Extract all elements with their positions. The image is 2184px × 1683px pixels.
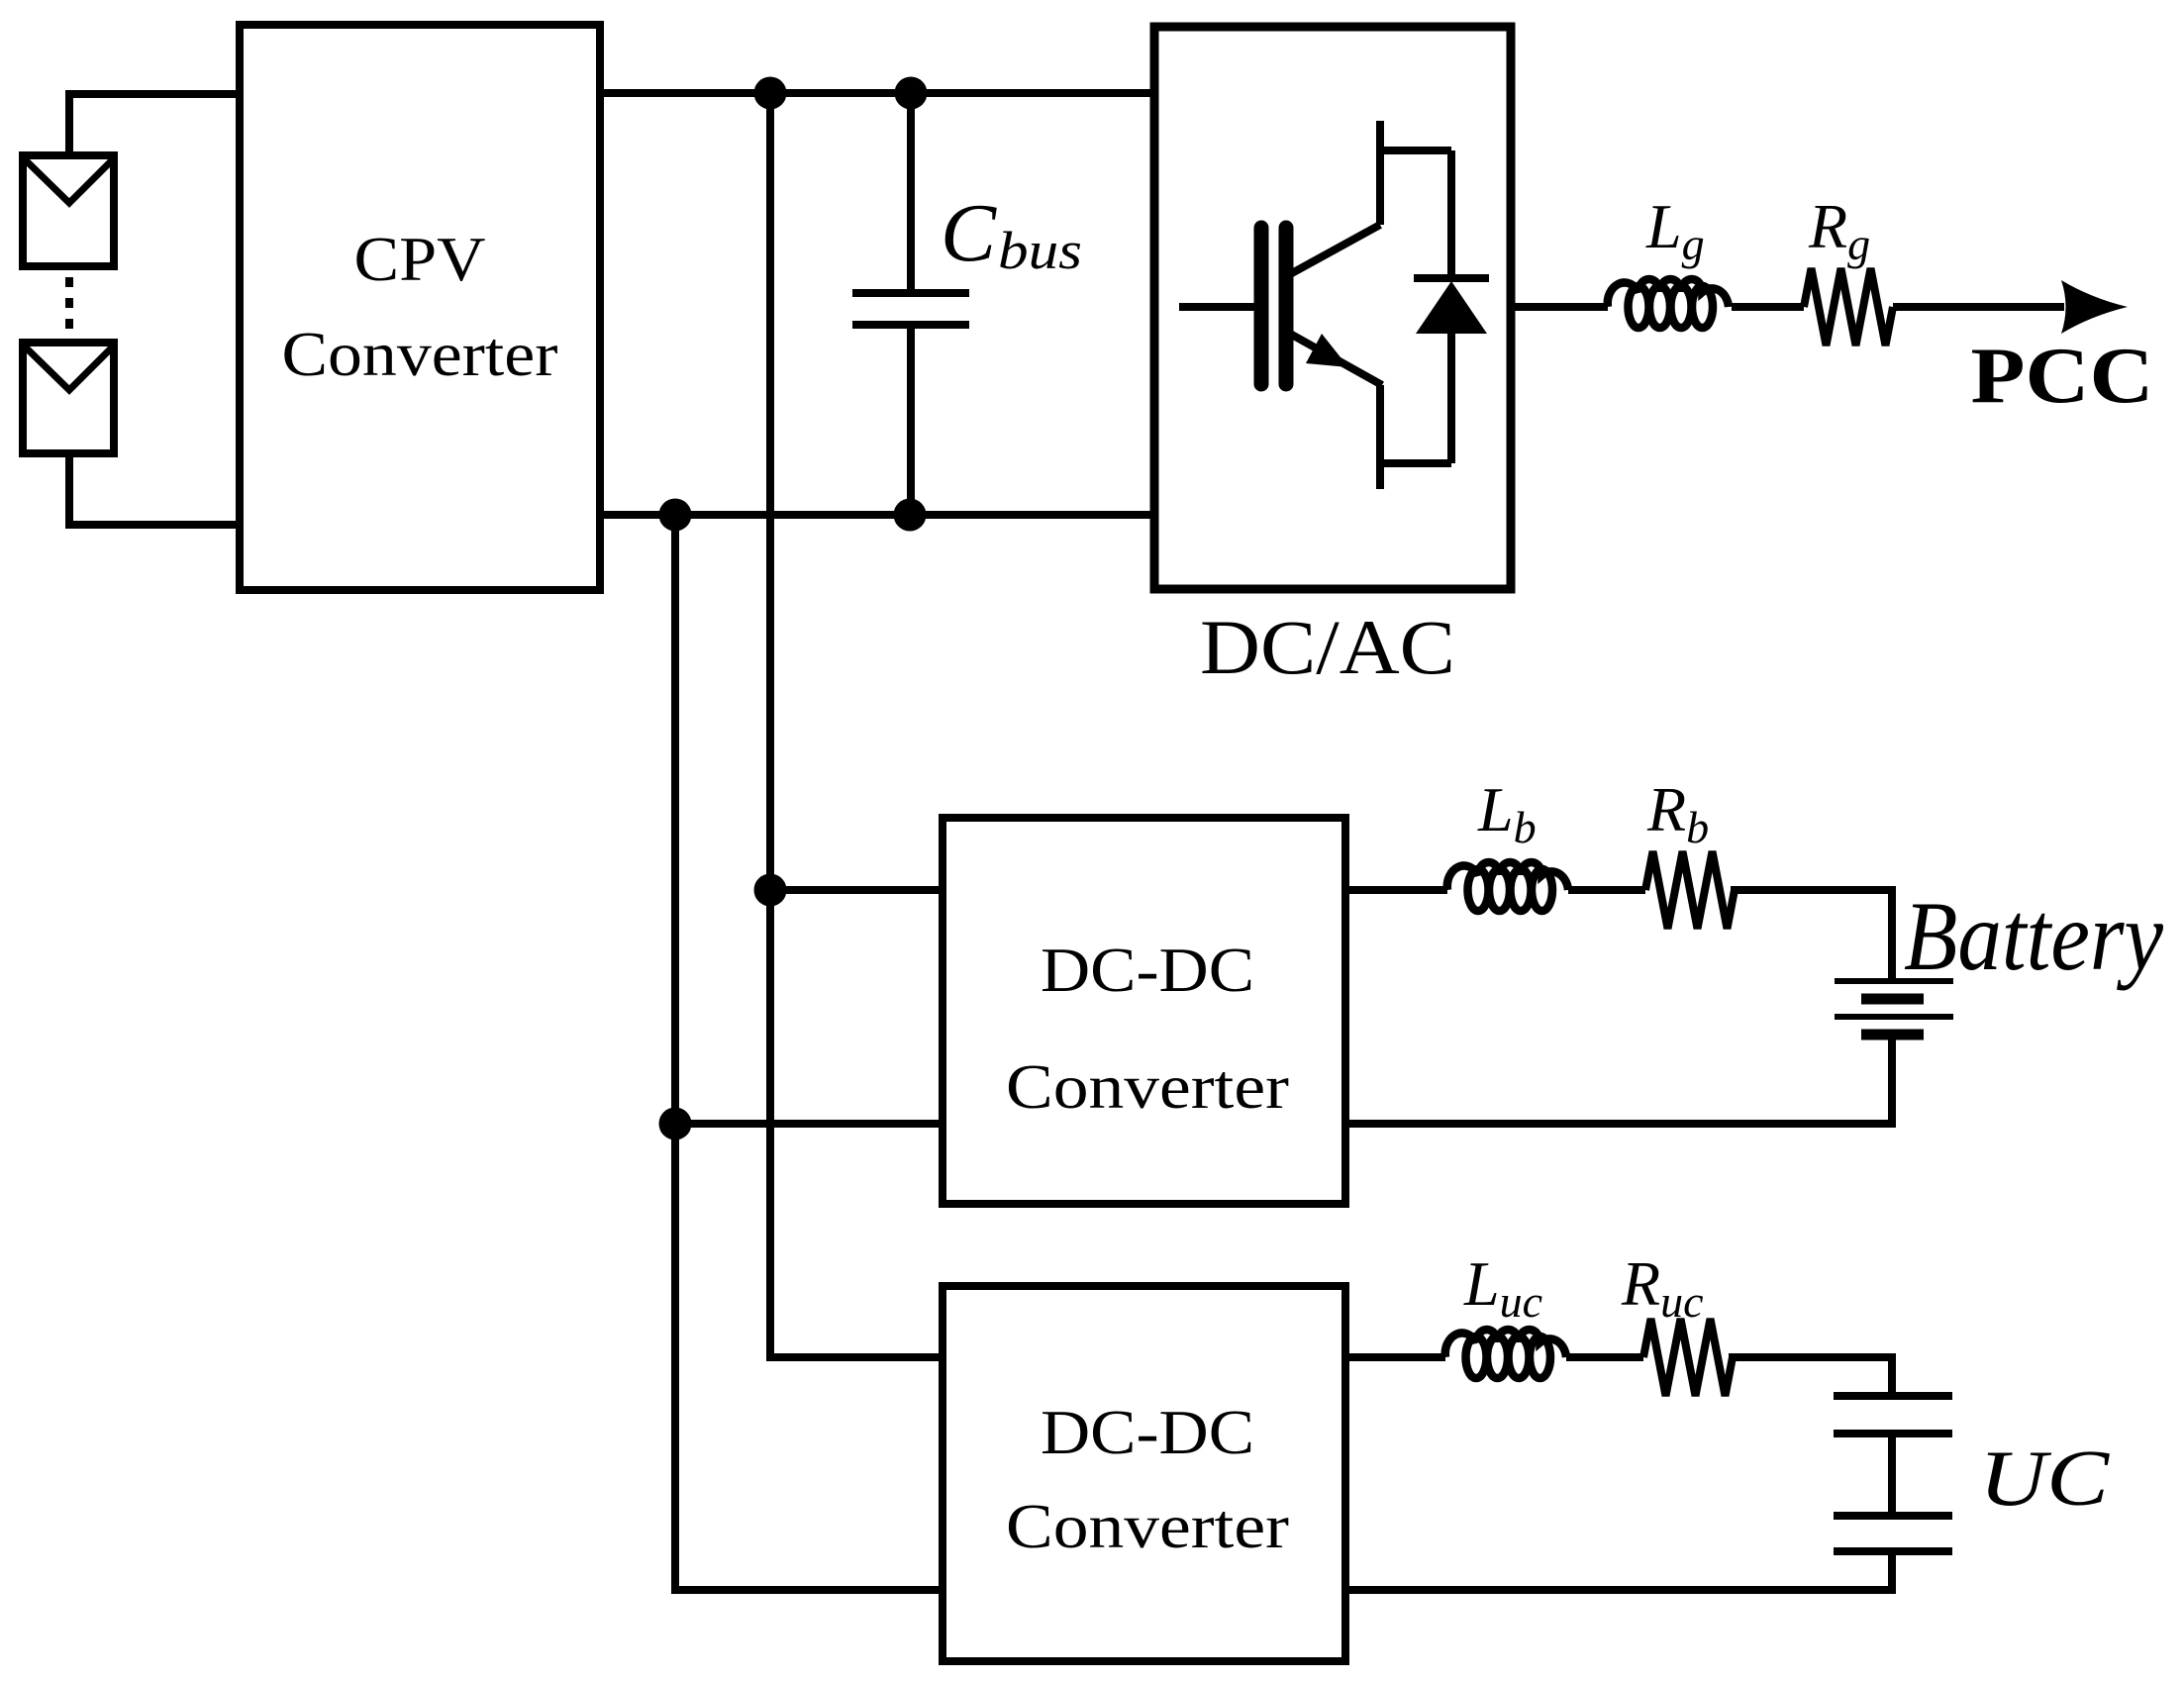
svg-text:Luc: Luc [1463,1248,1542,1327]
svg-text:UC: UC [1979,1434,2110,1523]
svg-text:DC-DC: DC-DC [1041,935,1254,1005]
svg-text:Lb: Lb [1477,774,1537,852]
svg-text:Converter: Converter [1006,1051,1289,1122]
svg-text:bus: bus [998,221,1082,280]
svg-text:Battery: Battery [1904,881,2164,991]
svg-text:PCC: PCC [1971,331,2154,420]
svg-text:CPV: CPV [354,224,486,294]
svg-text:Converter: Converter [282,319,558,389]
svg-text:Converter: Converter [1006,1491,1289,1561]
svg-text:Rb: Rb [1646,774,1709,852]
svg-text:DC/AC: DC/AC [1200,604,1455,690]
svg-text:C: C [941,187,997,279]
svg-text:Ruc: Ruc [1621,1248,1704,1327]
svg-text:Lg: Lg [1645,191,1705,269]
svg-text:Rg: Rg [1808,191,1870,269]
svg-text:DC-DC: DC-DC [1041,1397,1254,1467]
